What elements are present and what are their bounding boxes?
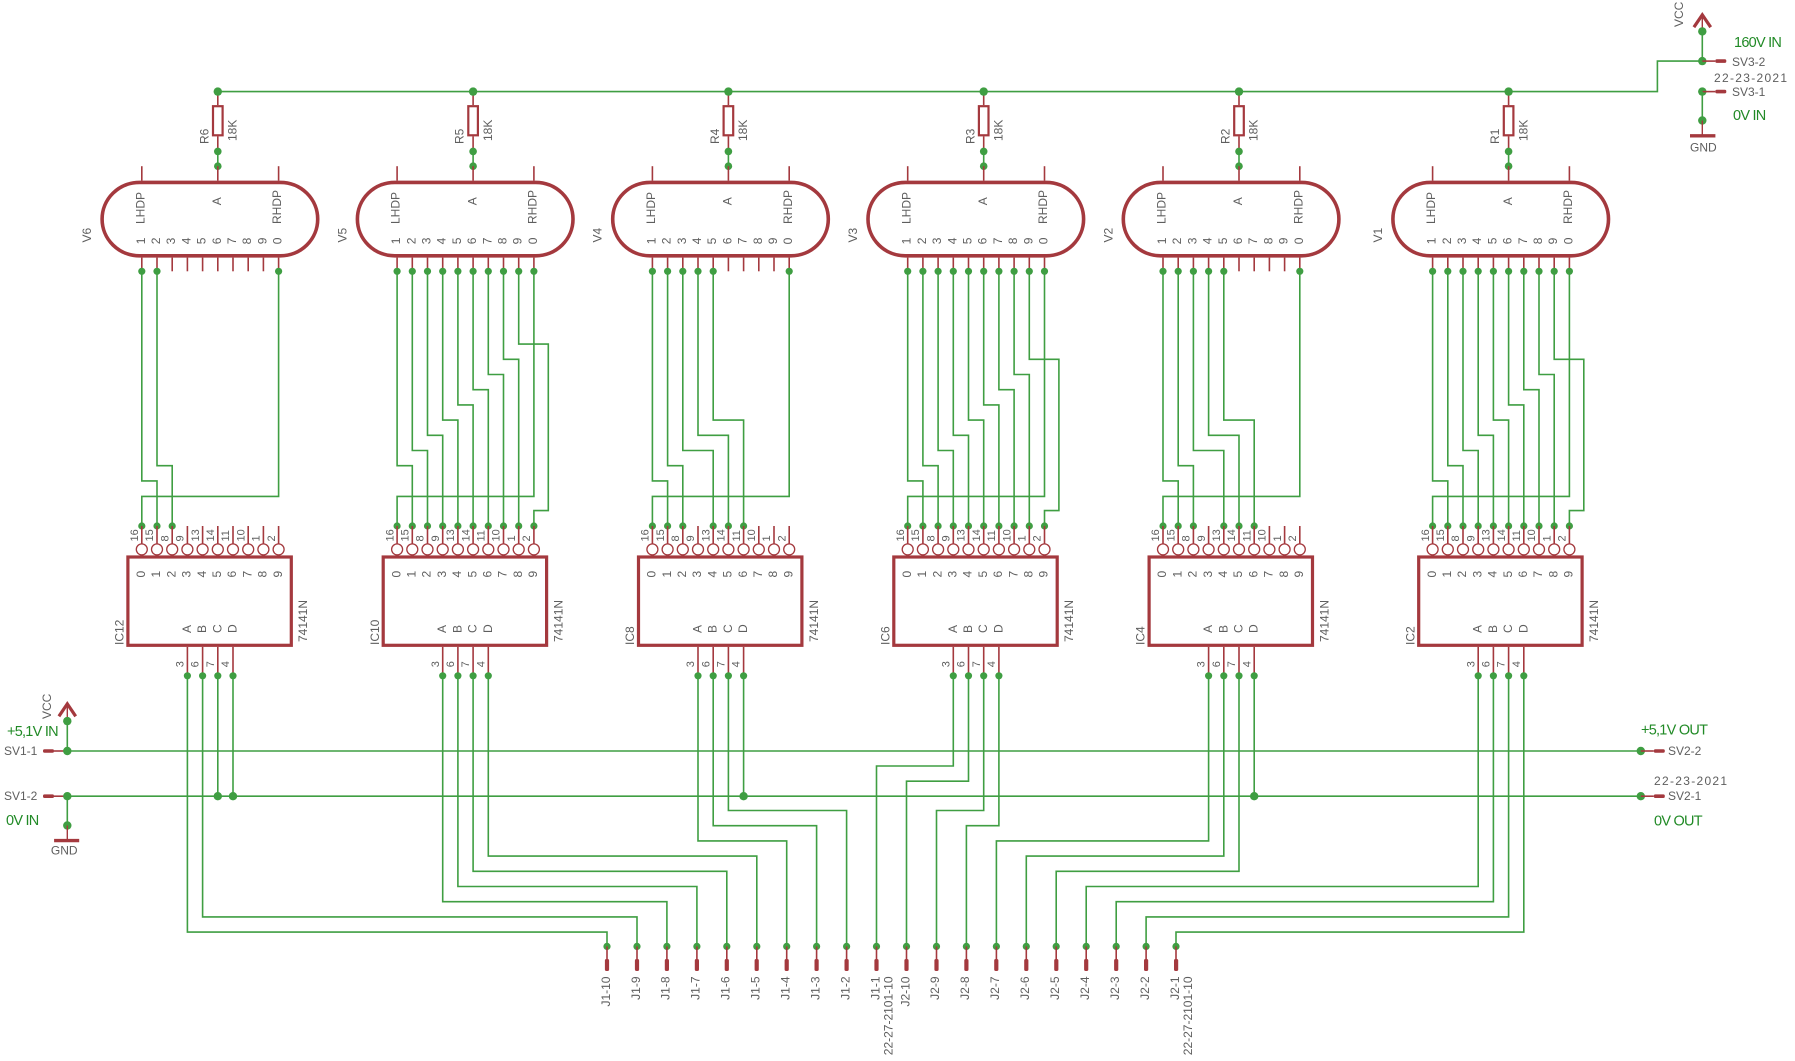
svg-text:3: 3 xyxy=(175,661,187,667)
svg-text:LHDP: LHDP xyxy=(389,192,403,224)
connector pin SV3-2 xyxy=(1698,55,1766,69)
svg-text:0: 0 xyxy=(900,571,914,578)
svg-text:D: D xyxy=(991,624,1005,633)
svg-text:3: 3 xyxy=(1201,571,1215,578)
svg-text:5: 5 xyxy=(705,237,719,244)
connector pin J2-6 xyxy=(1018,946,1032,999)
svg-text:4: 4 xyxy=(450,571,464,578)
svg-text:4: 4 xyxy=(1486,571,1500,578)
node 0V IN label left xyxy=(6,813,39,829)
svg-text:IC6: IC6 xyxy=(878,626,892,645)
svg-text:22-23-2021: 22-23-2021 xyxy=(1714,71,1788,85)
connector pin J2-4 xyxy=(1078,946,1092,999)
svg-text:6: 6 xyxy=(700,661,712,667)
svg-text:3: 3 xyxy=(685,661,697,667)
svg-text:0: 0 xyxy=(389,571,403,578)
wire V6 pin 1 to IC12 output 1 xyxy=(138,268,160,530)
svg-text:R1: R1 xyxy=(1488,128,1502,144)
svg-text:3: 3 xyxy=(1465,661,1477,667)
svg-text:4: 4 xyxy=(1511,661,1523,667)
svg-text:5: 5 xyxy=(961,237,975,244)
wire V2 pin 1 to IC4 output 1 xyxy=(1159,268,1181,530)
svg-text:3: 3 xyxy=(435,571,449,578)
svg-text:9: 9 xyxy=(271,571,285,578)
connector pin J1-5 xyxy=(749,946,763,999)
svg-text:A: A xyxy=(210,197,224,205)
svg-text:16: 16 xyxy=(1420,529,1432,541)
wire V3 pin 4 to IC6 output 4 xyxy=(950,268,972,530)
connector pin J2-10 xyxy=(898,946,912,1006)
svg-text:3: 3 xyxy=(1185,237,1199,244)
svg-text:A: A xyxy=(1201,625,1215,633)
svg-text:C: C xyxy=(976,624,990,633)
wire IC2 pin C to J2-2 xyxy=(1143,672,1513,950)
svg-text:6: 6 xyxy=(1501,237,1515,244)
svg-text:15: 15 xyxy=(1435,529,1447,541)
svg-text:J1-6: J1-6 xyxy=(719,976,733,1000)
connector pin J2-1 xyxy=(1168,946,1195,1055)
svg-text:13: 13 xyxy=(190,529,202,541)
wire V6 pin 0 to IC12 output 0 xyxy=(138,268,282,530)
svg-text:8: 8 xyxy=(240,237,254,244)
svg-text:2: 2 xyxy=(149,237,163,244)
svg-text:C: C xyxy=(1501,624,1515,633)
svg-text:14: 14 xyxy=(1226,529,1238,541)
ground symbol GND left xyxy=(51,826,79,858)
wire V3 pin 9 to IC6 output 9 xyxy=(1026,268,1059,530)
svg-text:14: 14 xyxy=(460,529,472,541)
nixie tube V3 xyxy=(846,166,1084,271)
svg-text:13: 13 xyxy=(1481,529,1493,541)
svg-text:14: 14 xyxy=(1496,529,1508,541)
svg-text:7: 7 xyxy=(751,571,765,578)
svg-text:J2-8: J2-8 xyxy=(958,976,972,1000)
svg-text:8: 8 xyxy=(766,571,780,578)
wire +5,1V rail SV1-1 to SV2-2 xyxy=(67,750,1641,752)
svg-text:11: 11 xyxy=(986,530,998,541)
svg-text:D: D xyxy=(1247,624,1261,633)
wire IC4 pin C to J2-5 xyxy=(1053,672,1243,950)
svg-text:7: 7 xyxy=(480,237,494,244)
svg-text:0: 0 xyxy=(1425,571,1439,578)
wire V5 pin 7 to IC10 output 7 xyxy=(485,268,507,530)
svg-text:J1-8: J1-8 xyxy=(659,976,673,1000)
svg-text:8: 8 xyxy=(1450,535,1462,541)
svg-text:D: D xyxy=(736,624,750,633)
svg-text:6: 6 xyxy=(210,237,224,244)
wire R5 to V5 anode xyxy=(469,151,477,170)
connector pin SV2-2 xyxy=(1637,744,1702,758)
svg-text:74141N: 74141N xyxy=(1317,600,1331,642)
svg-text:8: 8 xyxy=(1181,535,1193,541)
svg-text:J1-3: J1-3 xyxy=(808,976,822,1000)
svg-text:4: 4 xyxy=(1470,237,1484,244)
node 0V IN label right xyxy=(1733,108,1766,124)
connector pin SV3-1 xyxy=(1698,85,1766,99)
svg-text:9: 9 xyxy=(781,571,795,578)
svg-text:10: 10 xyxy=(746,529,758,541)
connector pin J2-8 xyxy=(958,946,972,999)
nixie tube V5 xyxy=(335,166,573,271)
svg-text:14: 14 xyxy=(205,529,217,541)
connector pin J2-7 xyxy=(988,946,1002,999)
svg-text:0V IN: 0V IN xyxy=(6,813,39,829)
svg-text:14: 14 xyxy=(716,529,728,541)
svg-text:IC2: IC2 xyxy=(1403,626,1417,645)
wire IC10 pin A to J1-8 xyxy=(439,672,670,950)
svg-text:2: 2 xyxy=(915,237,929,244)
wire IC8 pin B to J1-3 xyxy=(710,672,821,950)
wire V3 pin 2 to IC6 output 2 xyxy=(919,268,941,530)
wire V2 pin 4 to IC4 output 5 xyxy=(1205,268,1243,530)
svg-text:18K: 18K xyxy=(991,120,1005,141)
svg-text:2: 2 xyxy=(266,535,278,541)
svg-text:V3: V3 xyxy=(846,227,860,242)
node +5,1V IN label xyxy=(7,724,58,740)
svg-text:11: 11 xyxy=(731,530,743,541)
connector pin SV1-1 xyxy=(4,744,72,758)
svg-text:74141N: 74141N xyxy=(296,600,310,642)
svg-text:SV1-2: SV1-2 xyxy=(4,789,38,803)
svg-text:R5: R5 xyxy=(453,128,467,144)
svg-text:2: 2 xyxy=(521,535,533,541)
svg-text:0: 0 xyxy=(1155,571,1169,578)
wire V5 pin 9 to IC10 output 9 xyxy=(515,268,548,530)
wire V3 pin 1 to IC6 output 1 xyxy=(904,268,926,530)
power symbol VCC top right xyxy=(1672,1,1711,31)
svg-text:1: 1 xyxy=(1440,571,1454,578)
wire 0V rail SV1-2 to SV2-1 xyxy=(67,795,1641,797)
svg-text:B: B xyxy=(1486,625,1500,633)
resistor R5 18K xyxy=(453,87,495,155)
svg-text:J2-5: J2-5 xyxy=(1048,976,1062,1000)
svg-text:9: 9 xyxy=(255,237,269,244)
label 22-23-2021 right xyxy=(1654,774,1728,788)
svg-text:C: C xyxy=(721,624,735,633)
svg-text:6: 6 xyxy=(720,237,734,244)
svg-text:1: 1 xyxy=(134,237,148,244)
svg-text:3: 3 xyxy=(675,237,689,244)
svg-text:1: 1 xyxy=(1155,237,1169,244)
svg-text:3: 3 xyxy=(180,571,194,578)
svg-text:A: A xyxy=(180,625,194,633)
svg-text:7: 7 xyxy=(971,661,983,667)
wire V5 pin 0 to IC10 output 0 xyxy=(394,268,538,530)
svg-text:5: 5 xyxy=(1231,571,1245,578)
wire IC4 pin B to J2-6 xyxy=(1023,672,1228,950)
svg-text:6: 6 xyxy=(1211,661,1223,667)
svg-text:J1-5: J1-5 xyxy=(749,976,763,1000)
svg-text:9: 9 xyxy=(430,535,442,541)
wire V1 pin 9 to IC2 output 9 xyxy=(1551,268,1584,530)
svg-text:J1-4: J1-4 xyxy=(779,976,793,1000)
op-amp driver IC IC2 74141N xyxy=(1403,526,1601,676)
svg-text:RHDP: RHDP xyxy=(526,190,540,224)
svg-text:11: 11 xyxy=(220,530,232,541)
svg-text:10: 10 xyxy=(235,529,247,541)
svg-text:5: 5 xyxy=(721,571,735,578)
svg-text:3: 3 xyxy=(946,571,960,578)
svg-text:9: 9 xyxy=(1292,571,1306,578)
svg-text:6: 6 xyxy=(956,661,968,667)
svg-text:3: 3 xyxy=(930,237,944,244)
svg-text:V4: V4 xyxy=(591,227,605,242)
svg-text:2: 2 xyxy=(1455,571,1469,578)
svg-text:2: 2 xyxy=(930,571,944,578)
svg-text:1: 1 xyxy=(1017,535,1029,541)
wire V2 pin 0 to IC4 output 0 xyxy=(1159,268,1303,530)
node 160V IN label xyxy=(1734,35,1781,51)
wire V4 pin 0 to IC8 output 0 xyxy=(649,268,793,530)
svg-text:4: 4 xyxy=(690,237,704,244)
svg-text:VCC: VCC xyxy=(1672,1,1686,27)
wire V1 pin 5 to IC2 output 5 xyxy=(1490,268,1512,530)
svg-text:6: 6 xyxy=(736,571,750,578)
node 0V OUT label xyxy=(1654,813,1703,829)
wire V4 pin 2 to IC8 output 2 xyxy=(664,268,686,530)
op-amp driver IC IC6 74141N xyxy=(878,526,1076,676)
ground symbol GND top right xyxy=(1690,121,1717,155)
svg-text:4: 4 xyxy=(195,571,209,578)
wire IC6 pin A to J1-1 xyxy=(873,672,957,950)
svg-text:1: 1 xyxy=(506,535,518,541)
svg-text:5: 5 xyxy=(210,571,224,578)
resistor R2 18K xyxy=(1219,87,1261,155)
svg-text:IC10: IC10 xyxy=(368,619,382,645)
svg-text:8: 8 xyxy=(415,535,427,541)
svg-text:74141N: 74141N xyxy=(1062,600,1076,642)
svg-text:7: 7 xyxy=(716,661,728,667)
svg-text:5: 5 xyxy=(195,237,209,244)
svg-text:15: 15 xyxy=(1165,529,1177,541)
wire V1 pin 8 to IC2 output 8 xyxy=(1535,268,1557,530)
svg-text:GND: GND xyxy=(51,843,78,857)
wire V5 pin 2 to IC10 output 2 xyxy=(409,268,431,530)
svg-text:1: 1 xyxy=(1425,237,1439,244)
wire V1 pin 6 to IC2 output 6 xyxy=(1505,268,1527,530)
connector pin J1-10 xyxy=(599,946,613,1006)
svg-text:9: 9 xyxy=(511,237,525,244)
svg-text:7: 7 xyxy=(1262,571,1276,578)
resistor R3 18K xyxy=(963,87,1005,155)
svg-text:22-23-2021: 22-23-2021 xyxy=(1654,774,1728,788)
svg-text:J2-7: J2-7 xyxy=(988,976,1002,1000)
svg-text:1: 1 xyxy=(251,535,263,541)
wire SV1-2 to GND xyxy=(63,796,71,830)
svg-text:2: 2 xyxy=(404,237,418,244)
svg-text:C: C xyxy=(1232,624,1246,633)
op-amp driver IC IC10 74141N xyxy=(368,526,566,676)
svg-text:16: 16 xyxy=(1150,529,1162,541)
svg-text:7: 7 xyxy=(991,237,1005,244)
wire SV3-1 to GND xyxy=(1698,92,1706,125)
svg-text:0: 0 xyxy=(271,237,285,244)
svg-text:8: 8 xyxy=(496,237,510,244)
connector pin J1-8 xyxy=(659,946,673,999)
svg-text:18K: 18K xyxy=(1247,120,1261,141)
wire IC4 pin A to J2-7 xyxy=(993,672,1212,950)
wire VCC to SV3-2 xyxy=(1698,27,1706,61)
svg-text:1: 1 xyxy=(1541,535,1553,541)
svg-text:13: 13 xyxy=(445,529,457,541)
wire IC2 pin B to J2-3 xyxy=(1113,672,1497,950)
svg-text:V2: V2 xyxy=(1101,227,1115,242)
svg-text:4: 4 xyxy=(986,661,998,667)
svg-text:2: 2 xyxy=(1032,535,1044,541)
svg-text:160V IN: 160V IN xyxy=(1734,35,1781,51)
svg-text:6: 6 xyxy=(465,237,479,244)
svg-text:2: 2 xyxy=(1557,535,1569,541)
svg-text:A: A xyxy=(976,197,990,205)
svg-text:1: 1 xyxy=(405,571,419,578)
connector pin J1-4 xyxy=(779,946,793,999)
wire V1 pin 7 to IC2 output 7 xyxy=(1520,268,1542,530)
nixie tube V2 xyxy=(1101,166,1339,271)
svg-text:4: 4 xyxy=(945,237,959,244)
svg-text:9: 9 xyxy=(1277,237,1291,244)
svg-text:RHDP: RHDP xyxy=(1291,190,1305,224)
svg-text:3: 3 xyxy=(1455,237,1469,244)
svg-text:10: 10 xyxy=(1526,529,1538,541)
svg-text:J1-2: J1-2 xyxy=(838,976,852,1000)
svg-text:15: 15 xyxy=(910,529,922,541)
wire V3 pin 5 to IC6 output 5 xyxy=(965,268,987,530)
svg-text:R3: R3 xyxy=(963,128,977,144)
svg-text:SV3-1: SV3-1 xyxy=(1732,85,1766,99)
svg-text:C: C xyxy=(210,624,224,633)
svg-text:6: 6 xyxy=(1246,571,1260,578)
svg-text:4: 4 xyxy=(961,571,975,578)
svg-text:9: 9 xyxy=(1021,237,1035,244)
wire V4 pin 3 to IC8 output 4 xyxy=(679,268,717,530)
svg-text:11: 11 xyxy=(1241,530,1253,541)
connector pin J1-1 xyxy=(868,946,895,1055)
svg-text:10: 10 xyxy=(1001,529,1013,541)
svg-text:A: A xyxy=(1231,197,1245,205)
svg-text:16: 16 xyxy=(640,529,652,541)
wire IC10 pin D to J1-5 xyxy=(485,672,761,950)
svg-text:8: 8 xyxy=(1022,571,1036,578)
svg-text:SV2-1: SV2-1 xyxy=(1668,789,1702,803)
svg-text:0V IN: 0V IN xyxy=(1733,108,1766,124)
wire IC10 pin B to J1-7 xyxy=(454,672,700,950)
svg-text:1: 1 xyxy=(915,571,929,578)
svg-text:2: 2 xyxy=(776,535,788,541)
svg-text:SV2-2: SV2-2 xyxy=(1668,744,1702,758)
svg-text:1: 1 xyxy=(900,237,914,244)
svg-text:7: 7 xyxy=(1246,237,1260,244)
svg-text:18K: 18K xyxy=(1516,120,1530,141)
svg-text:8: 8 xyxy=(1261,237,1275,244)
svg-text:0: 0 xyxy=(1037,237,1051,244)
svg-text:16: 16 xyxy=(895,529,907,541)
wire V5 pin 6 to IC10 output 6 xyxy=(470,268,492,530)
svg-text:8: 8 xyxy=(1531,237,1545,244)
svg-text:10: 10 xyxy=(491,529,503,541)
wire R3 to V3 anode xyxy=(980,151,988,170)
svg-text:8: 8 xyxy=(751,237,765,244)
svg-text:8: 8 xyxy=(1277,571,1291,578)
svg-text:13: 13 xyxy=(956,529,968,541)
svg-text:4: 4 xyxy=(705,571,719,578)
svg-text:4: 4 xyxy=(1216,571,1230,578)
wire IC4 pin D to 0V rail xyxy=(1250,672,1258,800)
svg-text:3: 3 xyxy=(1470,571,1484,578)
op-amp driver IC IC4 74141N xyxy=(1134,526,1332,676)
connector pin J1-6 xyxy=(719,946,733,999)
wire V2 pin 5 to IC4 output 6 xyxy=(1220,268,1258,530)
wire IC12 pin D to 0V rail xyxy=(229,672,237,800)
svg-text:B: B xyxy=(961,625,975,633)
svg-text:13: 13 xyxy=(700,529,712,541)
svg-text:A: A xyxy=(435,625,449,633)
wire 160V bus from SV3-2 to resistors xyxy=(218,61,1703,92)
svg-text:6: 6 xyxy=(190,661,202,667)
wire R4 to V4 anode xyxy=(725,151,733,170)
wire V1 pin 1 to IC2 output 1 xyxy=(1429,268,1451,530)
svg-text:9: 9 xyxy=(175,535,187,541)
svg-text:0V OUT: 0V OUT xyxy=(1654,813,1703,829)
svg-text:A: A xyxy=(946,625,960,633)
svg-text:J1-10: J1-10 xyxy=(599,976,613,1006)
svg-text:15: 15 xyxy=(144,529,156,541)
svg-text:SV3-2: SV3-2 xyxy=(1732,55,1766,69)
svg-text:IC12: IC12 xyxy=(113,619,127,645)
wire V3 pin 7 to IC6 output 7 xyxy=(995,268,1017,530)
wire V1 pin 4 to IC2 output 4 xyxy=(1475,268,1497,530)
svg-text:7: 7 xyxy=(736,237,750,244)
svg-text:A: A xyxy=(721,197,735,205)
wire R1 to V1 anode xyxy=(1505,151,1513,170)
svg-text:16: 16 xyxy=(129,529,141,541)
connector pin J2-2 xyxy=(1138,946,1152,999)
wire IC6 pin B to J2-10 xyxy=(903,672,972,950)
svg-text:5: 5 xyxy=(976,571,990,578)
svg-text:J1-7: J1-7 xyxy=(689,976,703,1000)
svg-text:9: 9 xyxy=(685,535,697,541)
svg-text:11: 11 xyxy=(476,530,488,541)
svg-text:22-27-2101-10: 22-27-2101-10 xyxy=(882,976,896,1055)
wire V5 pin 3 to IC10 output 3 xyxy=(424,268,446,530)
svg-text:LHDP: LHDP xyxy=(1155,192,1169,224)
svg-text:LHDP: LHDP xyxy=(644,192,658,224)
svg-text:10: 10 xyxy=(1257,529,1269,541)
svg-text:V6: V6 xyxy=(80,227,94,242)
svg-text:7: 7 xyxy=(225,237,239,244)
svg-text:8: 8 xyxy=(159,535,171,541)
svg-text:5: 5 xyxy=(1216,237,1230,244)
svg-text:8: 8 xyxy=(1006,237,1020,244)
wire IC12 pin B to J1-9 xyxy=(199,672,641,950)
svg-text:9: 9 xyxy=(1562,571,1576,578)
svg-text:6: 6 xyxy=(481,571,495,578)
svg-text:74141N: 74141N xyxy=(552,600,566,642)
svg-text:8: 8 xyxy=(670,535,682,541)
svg-text:7: 7 xyxy=(1226,661,1238,667)
svg-text:8: 8 xyxy=(1546,571,1560,578)
svg-text:V5: V5 xyxy=(335,227,349,242)
wire V3 pin 8 to IC6 output 8 xyxy=(1011,268,1033,530)
svg-text:0: 0 xyxy=(134,571,148,578)
svg-text:2: 2 xyxy=(1170,237,1184,244)
nixie tube V4 xyxy=(591,166,829,271)
svg-text:1: 1 xyxy=(149,571,163,578)
svg-text:14: 14 xyxy=(971,529,983,541)
svg-text:6: 6 xyxy=(991,571,1005,578)
svg-text:6: 6 xyxy=(1516,571,1530,578)
svg-text:7: 7 xyxy=(205,661,217,667)
svg-text:3: 3 xyxy=(1196,661,1208,667)
